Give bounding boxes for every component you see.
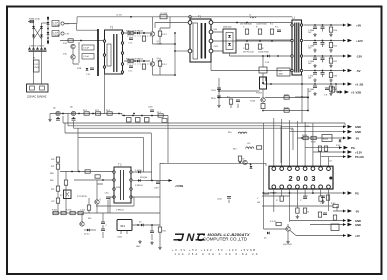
svg-text:300K: 300K [279,74,284,76]
wire ch A join [153,28,176,44]
arrow GND [343,125,361,129]
svg-text:Q: Q [100,199,102,201]
svg-text:R 2.2: R 2.2 [162,34,168,36]
wire ctl2 [290,131,347,133]
dashed box B [127,63,152,65]
wire left rail down [34,44,42,84]
svg-text:431: 431 [120,224,125,228]
svg-text:C-MOV D-MOV: C-MOV D-MOV [29,46,45,48]
transistor Q4 power [129,58,162,66]
resistor R51 [284,95,289,100]
wire q12 [264,224,347,240]
svg-text:R15 :: R15 : [233,149,238,151]
svg-text:R: R [262,48,264,50]
svg-text:+12V: +12V [356,39,363,43]
resistor R19 [128,31,133,34]
svg-text:C 1uF: C 1uF [83,48,90,50]
resistor R61 [95,110,101,115]
svg-text:R69: R69 [50,180,53,182]
svg-text:R2.2: R2.2 [95,110,99,112]
svg-text:R10: R10 [214,29,217,31]
arrow ctl8 [343,234,360,238]
cap block C2 [52,31,61,37]
svg-text:R 2.2: R 2.2 [162,64,168,66]
svg-text:C R: C R [324,95,328,97]
resistor R40 [329,24,337,36]
svg-text:STR: STR [77,68,82,70]
wire -12V line [304,55,347,57]
wire hv down [77,138,79,172]
cap cluster top right [324,87,335,97]
resistor R44 [329,83,337,96]
svg-text:R47K: R47K [284,95,289,97]
wire top bus [77,16,292,18]
svg-text:PG: PG [355,192,359,196]
junction sb [301,83,303,98]
resistor R64 [238,156,241,163]
svg-text:R2.2: R2.2 [83,110,87,112]
dashed box A [127,35,152,37]
resistor R24 [158,61,167,66]
JNC logo [174,232,207,244]
fuse F1 [28,20,34,22]
resistor R91 [95,175,104,181]
svg-text:GND: GND [355,219,361,223]
svg-text:R22: R22 [334,61,337,63]
wire to HV bus [64,17,98,30]
transistor Q12 [283,227,292,246]
svg-text:R33: R33 [334,76,337,78]
svg-text:C 1n: C 1n [128,71,132,73]
cluster below pg [320,195,330,205]
wire t5 pin down [104,69,106,114]
photocoupler PC1 [256,77,267,95]
svg-text:250VAC: 250VAC [53,24,61,27]
wire sb stub [295,84,309,97]
thermistor TH1 [68,39,82,42]
regulator U2 431 [117,220,132,239]
svg-text:PG: PG [351,146,355,150]
resistor R42 [329,55,337,68]
wire y196 [262,195,290,197]
svg-text:R15: R15 [334,46,337,48]
wire collector Q3 [152,17,154,44]
diode D45 [335,83,342,93]
svg-text:GND: GND [355,130,361,134]
svg-text:R1K: R1K [163,231,167,233]
labels standby left [50,173,53,182]
svg-text:R71: R71 [51,166,54,168]
svg-text:C22: C22 [51,201,54,203]
transistor Q5 [53,108,60,116]
wires above IC pins [274,118,329,166]
svg-text:+5VSB: +5VSB [175,184,183,188]
wire standby top [60,172,114,181]
diode D20 [336,140,341,148]
transistor Q1 [63,43,75,49]
svg-text:R 4.7K: R 4.7K [66,210,72,212]
vertical right standby [159,163,161,246]
svg-text:D18 SBL3040: D18 SBL3040 [240,24,252,26]
wires below IC pins [274,189,329,222]
resistor R62 [106,110,112,115]
svg-text:C 104: C 104 [80,210,85,212]
svg-text:D FR154: D FR154 [116,210,124,212]
svg-text:GND: GND [355,125,361,129]
resistor R21 [142,32,145,41]
svg-text:R XX: R XX [336,145,341,147]
resistor R71b [311,136,316,143]
junction dots [47,17,49,44]
wire bus1 [63,116,345,123]
resistor R90 [71,170,90,173]
svg-text:10V: 10V [308,32,312,34]
resistor R50 [261,104,265,112]
cap C51 [72,117,76,120]
rectifier block D83-004 [223,27,236,54]
svg-text:PS-ON: PS-ON [355,155,364,159]
svg-text:+5_SB: +5_SB [355,83,363,87]
wire ctl5 [313,151,346,153]
wire rect out [230,40,293,56]
svg-text:IC PC817A: IC PC817A [77,195,87,198]
svg-text:R10: R10 [228,132,231,134]
svg-text:R: R [308,212,310,214]
resistor pair above [51,157,60,172]
svg-text:R 2.2W: R 2.2W [161,13,168,15]
resistor R80 [276,196,283,202]
svg-text:C104: C104 [211,90,216,92]
snubber R4 [82,54,94,60]
svg-text:C470: C470 [148,107,153,109]
resistor R101 [158,227,166,233]
svg-text:C R: C R [86,74,90,76]
arrow +5_VSB [340,90,361,94]
arrow ctl7 [343,219,361,223]
arrow stub left [48,114,52,122]
svg-text:C: C [243,27,245,29]
svg-text:R10: R10 [334,30,337,32]
svg-text:R10K: R10K [284,108,289,110]
svg-text:C103: C103 [303,196,308,198]
svg-text:250V: 250V [34,67,39,69]
cap C30 [308,24,317,36]
choke LF2 [61,32,70,36]
cap C32 [308,55,317,68]
wire +12V line [304,40,347,42]
svg-text:C472: C472 [214,46,219,48]
transistor Q3 power [129,32,162,46]
svg-text:Q6: Q6 [70,107,74,109]
svg-text:C: C [106,225,108,227]
svg-text:R: R [256,27,258,29]
svg-text:+5V: +5V [355,234,360,238]
svg-text:R75: R75 [51,189,54,191]
cap C33 [308,70,317,83]
svg-text:C470: C470 [154,188,159,190]
wire lower secondary [211,62,292,71]
svg-text:F1: F1 [33,58,36,60]
resistor R83 [303,208,309,214]
svg-text:D XX: D XX [265,62,270,64]
cap C52 [148,107,154,117]
wire AC to filter [42,22,49,24]
cap C50 [56,117,60,120]
choke LF1 [61,22,70,26]
wire emitter Q4 [153,58,176,75]
svg-text:-12V: -12V [356,55,362,59]
labels row [52,210,85,212]
svg-text:C 1uF: C 1uF [83,56,90,58]
cap extra y70.5 [321,70,325,77]
resistor R71 [33,58,40,73]
svg-text:R10K: R10K [311,142,316,144]
arrow -5Vc [343,136,359,140]
wire left of IC [264,123,270,229]
wire +5V line [304,24,347,26]
cap C13 [128,66,133,73]
start cluster [77,68,94,76]
resistor cluster mid [87,193,110,214]
cap extra y40.5 [321,40,325,47]
diode D1 [47,22,50,24]
cap C31 [308,40,317,53]
wire fb2 [263,88,308,123]
svg-text:ZD 6.2: ZD 6.2 [84,234,89,236]
svg-text:C 1n: C 1n [128,43,132,45]
IC U1 2003 [269,161,333,190]
wire sb out [146,180,172,182]
transistor Q6 [70,107,76,116]
svg-text:Q5: Q5 [53,108,57,110]
svg-text:+3.3V +5V +12V -5V: +3.3V +5V +12V -5V -12V +5VSB [172,248,255,252]
wire fb1 [219,97,260,99]
svg-text:R70: R70 [51,159,54,161]
svg-text:R2.2: R2.2 [157,112,161,114]
diode D8 [137,32,139,35]
wire pc left [219,90,260,92]
arrow ctl6 [343,209,359,213]
wire filter rail [47,18,49,44]
coil L2 on top bus [249,15,256,19]
sb label D30 [135,170,142,172]
diode D2 [47,32,50,34]
wire q13 [97,180,103,213]
resistor R82 [296,208,300,219]
cluster r86 [318,212,327,217]
svg-text:L2: L2 [249,15,252,17]
svg-text:TL431: TL431 [250,101,255,103]
svg-text:ZD: ZD [139,222,142,224]
zener D32 [84,229,96,236]
junction dots secondary [236,22,273,42]
svg-text:C10u: C10u [105,193,109,195]
arrow +3.3 [343,150,362,154]
junction fb [218,90,309,111]
resistor R65 [157,112,167,123]
cap C21 [243,44,249,50]
svg-text:R C: R C [275,27,279,29]
svg-text:R: R [276,200,278,202]
ground marks bottom [136,240,162,250]
svg-text:R330: R330 [305,126,310,128]
svg-text:D15: D15 [63,54,68,56]
coil L4 [233,143,262,151]
svg-text:3.15: 3.15 [34,64,39,66]
svg-text:D83-004: D83-004 [223,27,232,29]
svg-text:+3.3V: +3.3V [355,151,362,155]
svg-text:ZD: ZD [264,238,267,240]
resistor pair R63 [123,115,149,122]
cap C20 [243,27,249,35]
resistor R85 [333,215,336,220]
arrow PS ON [343,155,364,159]
svg-text:R150: R150 [211,98,216,100]
svg-text:L1: L1 [292,16,295,20]
svg-text:16V: 16V [308,63,312,65]
resistor R55 above PC [259,55,267,77]
wire line211 [262,206,346,211]
wire x160 vertical [160,17,170,28]
svg-text:220VAC 50/60HZ: 220VAC 50/60HZ [27,96,47,99]
arrow +5V [343,23,361,27]
svg-text:C: C [243,48,245,50]
cap C12 [128,38,133,45]
fuse component on top bus [160,13,167,19]
svg-text:R2.2: R2.2 [106,110,110,112]
svg-text:R C: R C [270,24,274,26]
svg-text:-5V: -5V [355,210,359,214]
AC connector CON1 [27,84,49,92]
svg-text:PC817: PC817 [256,93,263,95]
transformer T2 [113,164,132,204]
transformer T1 [188,15,213,63]
HV bus thick [97,29,99,76]
svg-text:L10: L10 [247,143,250,145]
svg-text:R68: R68 [50,173,53,175]
junction dots drive [62,113,135,115]
resistor R22 [142,60,145,69]
svg-text:U1: U1 [329,161,333,163]
arrow PS-ON [343,130,361,134]
resistor R72 [318,146,327,151]
bridge diodes [32,26,43,37]
transistor Q11 [242,159,252,169]
arrow +12V [343,39,363,43]
svg-text:Q50 C945: Q50 C945 [283,244,292,246]
svg-text:C2200 R100: C2200 R100 [258,52,269,54]
box D21 [331,224,339,231]
resistor row r100 [53,211,83,214]
wire bus3 [74,121,294,150]
photocoupler PC2 [64,190,72,199]
diode D30 [133,171,152,174]
resistor R20 [128,59,133,62]
svg-text:D FR104: D FR104 [135,185,143,187]
wire sb net [160,163,266,166]
diode D33 [137,222,143,227]
resistor R70 [302,135,308,140]
transistor Q2 [63,54,75,60]
resistor R23 [158,31,167,36]
svg-text:T 2: T 2 [118,164,122,167]
resistor R30 [256,27,262,35]
wire T1 left bottom [175,50,188,52]
svg-text:2 0 0 3: 2 0 0 3 [289,174,316,183]
svg-text:R47: R47 [334,89,337,91]
vertical resistors left column [51,172,60,214]
bridge rectifier BD1 [34,23,42,44]
choke L1 [291,16,303,76]
svg-text:T3: T3 [110,26,114,30]
wire loop down a [65,123,151,181]
cap C72 [150,224,154,240]
svg-text:C2 472: C2 472 [116,14,122,16]
svg-text:-5V: -5V [356,69,361,73]
arrow +5VSB [169,179,184,188]
svg-text:LF2: LF2 [66,34,71,36]
svg-text:14A 25A 9.0A 0.3A: 14A 25A 9.0A 0.3A 0.8A 2A [175,252,258,256]
svg-text:31DQ04: 31DQ04 [140,177,147,179]
svg-text:C: C [257,198,259,200]
wire -5V line [304,70,347,72]
wire top of column [160,162,164,164]
svg-text:C2200 R100: C2200 R100 [256,24,267,26]
svg-text:-5V: -5V [355,137,359,141]
resistor R32 [270,27,281,35]
wire ctl4 [305,147,342,149]
transistor Q13 [95,199,102,204]
diode D22 on -12V line [265,55,279,64]
resistor R57 box [277,68,290,76]
cap c105 [217,197,231,204]
wire pg [262,192,346,194]
svg-text:C104: C104 [217,199,222,201]
svg-text:D 1N4148: D 1N4148 [268,193,277,195]
resistor R43 [329,70,337,83]
resistor cluster q12 [264,221,281,240]
transistor Q14 [80,213,84,226]
wire line224 [310,224,346,226]
svg-text:GND: GND [355,223,361,227]
cap C60 [300,197,307,202]
svg-text:103: 103 [257,202,260,204]
wire q rail [73,42,79,64]
svg-text:16V: 16V [308,48,312,50]
wire T1 left top [155,23,188,29]
svg-text:EI28: EI28 [116,187,120,189]
block D20b [322,135,332,142]
svg-text:D14: D14 [63,43,68,45]
wire ctl5b [321,156,346,158]
ground q12 [286,240,290,244]
cap C34 [308,83,317,96]
wire ctl1 [282,123,346,127]
svg-text:+5V: +5V [356,24,361,28]
svg-text:10V: 10V [308,91,312,93]
wire loop down b [78,128,144,172]
transistor Q10 [250,98,265,103]
wire u2 right [132,224,160,226]
wire ch B join [159,58,161,75]
wire lower filter [60,40,104,42]
arrow PGc [339,146,355,150]
svg-text:R1K: R1K [88,218,92,220]
MOV row [28,47,47,52]
wire ch A [124,32,150,34]
transformer T5 [103,26,123,75]
coil L3 [228,132,247,134]
